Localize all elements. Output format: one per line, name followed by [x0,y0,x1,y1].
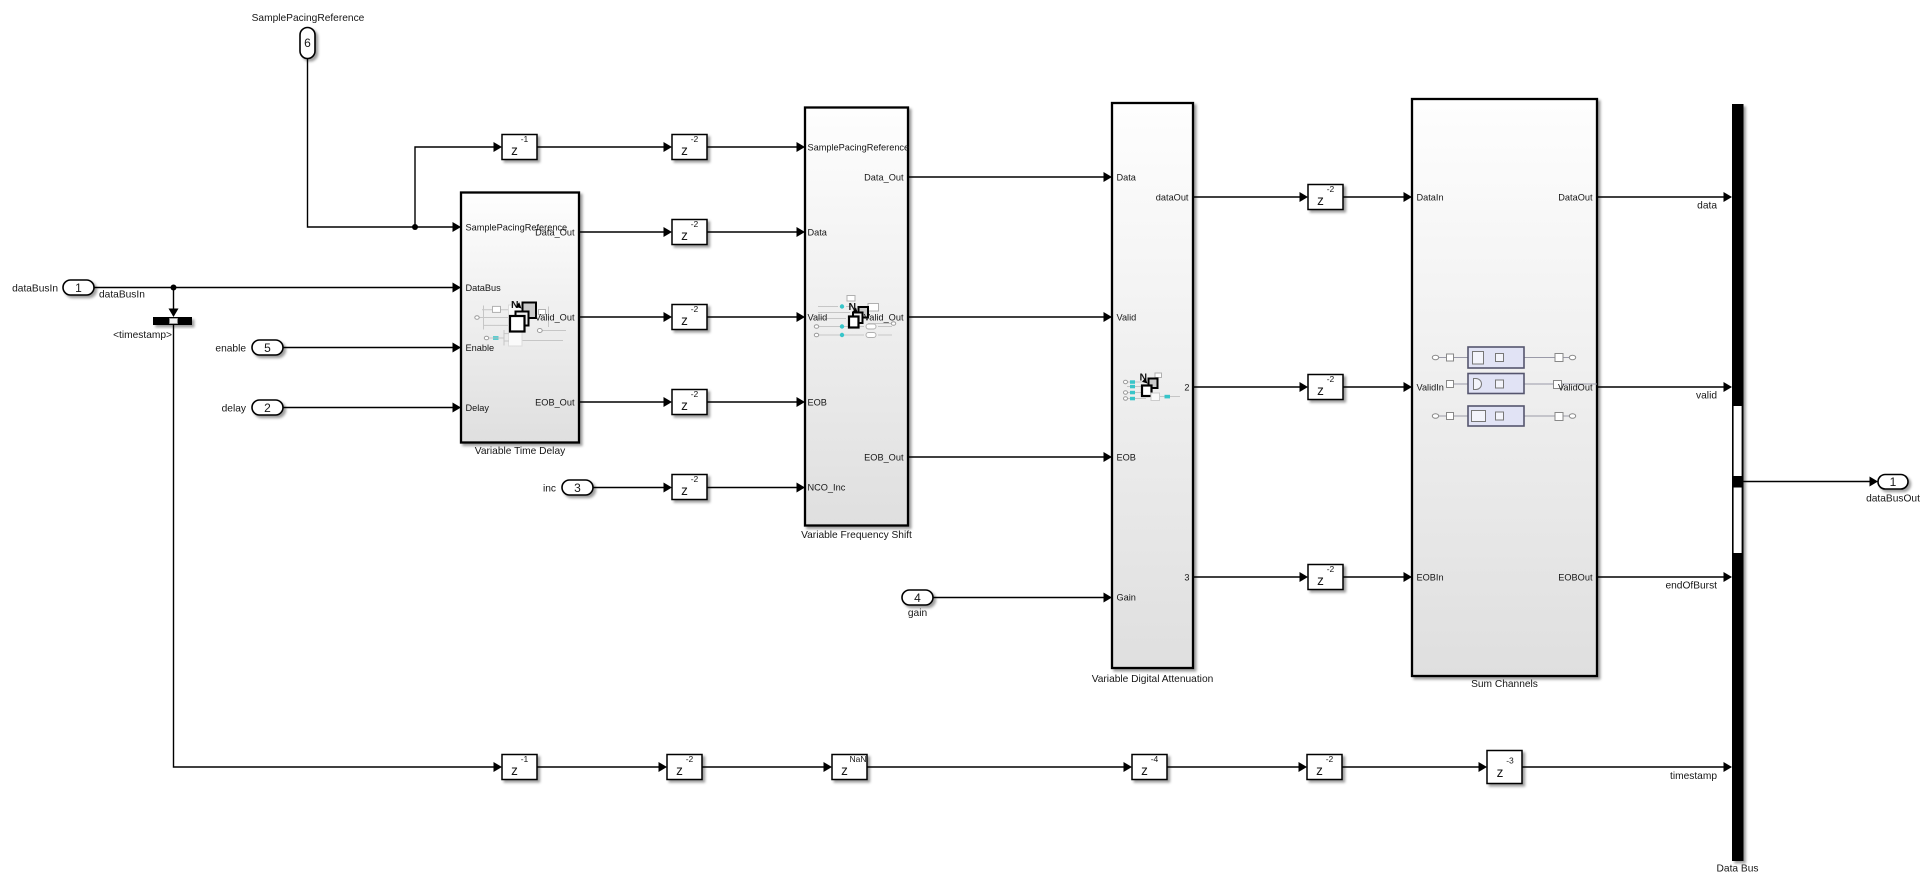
subsystem Variable Digital Attenuation [1112,103,1193,668]
wire VFS Valid_Out to VDA [908,312,1112,322]
wire VTD Data_Out to z-2 [579,227,672,237]
svg-text:SamplePacingReference: SamplePacingReference [808,143,910,153]
svg-text:-2: -2 [1327,374,1335,384]
delay block z-1 bottom [502,754,537,780]
svg-text:EOBOut: EOBOut [1558,573,1593,583]
svg-text:dataBusOut: dataBusOut [1866,494,1920,505]
subsystem Variable Frequency Shift [805,108,909,526]
wire z-4 to z-2 [1167,762,1307,772]
svg-text:DataIn: DataIn [1417,193,1444,203]
svg-text:EOB: EOB [1117,453,1136,463]
wire VTD Valid_Out to z-2 [579,312,672,322]
svg-text:z: z [1141,763,1148,778]
wire junction down to bus selector [169,288,179,318]
delay block z-4 [1132,754,1167,780]
wire Sum EOBOut to Data Bus [1597,572,1732,582]
svg-text:-2: -2 [691,304,699,314]
svg-text:3: 3 [574,481,581,495]
svg-text:SamplePacingReference: SamplePacingReference [252,13,365,24]
svg-text:1: 1 [1890,475,1897,489]
svg-text:Variable Frequency Shift: Variable Frequency Shift [801,530,912,541]
wire z-2 mid3 to Sum Channels [1343,572,1412,582]
bus selector tap [153,317,192,325]
wire bottom z-2 to NaN delay [702,762,832,772]
wire z-2 mid1 to Sum Channels [1343,192,1412,202]
wire VTD EOB_Out to z-2 [579,397,672,407]
delay block z-1 top [502,134,537,160]
svg-text:z: z [511,763,518,778]
wire VFS EOB_Out to VDA [908,452,1112,462]
svg-text:enable: enable [215,344,246,355]
svg-text:Valid_Out: Valid_Out [535,313,575,323]
wire VFS Data_Out to VDA [908,172,1112,182]
svg-text:4: 4 [914,591,921,605]
delay block NaN [832,754,867,780]
inport 5 enable [252,340,283,355]
svg-text:dataBusIn: dataBusIn [99,290,145,301]
svg-text:z: z [1317,383,1324,398]
svg-text:Variable Digital Attenuation: Variable Digital Attenuation [1092,674,1214,685]
svg-text:timestamp: timestamp [1670,771,1717,782]
wire z-2 to z-3 [1342,762,1487,772]
svg-text:data: data [1697,201,1717,212]
wire z-2 mid2 to Sum Channels [1343,382,1412,392]
svg-text:dataOut: dataOut [1156,193,1189,203]
delay block z-2 row2 [672,219,707,245]
wire inc to z-2 [593,483,672,493]
svg-text:Delay: Delay [466,403,490,413]
svg-text:Data_Out: Data_Out [535,228,575,238]
svg-text:-2: -2 [691,219,699,229]
svg-text:DataOut: DataOut [1558,193,1593,203]
wire VDA out2 to z-2 [1193,382,1308,392]
inport 6 SamplePacingReference [300,28,315,59]
svg-text:inc: inc [543,484,556,495]
svg-text:-2: -2 [1327,184,1335,194]
svg-text:-2: -2 [691,474,699,484]
svg-text:2: 2 [264,401,271,415]
svg-text:-3: -3 [1506,756,1514,766]
wire Data Bus to outport [1744,477,1879,487]
svg-text:Data Bus: Data Bus [1717,864,1759,875]
svg-text:EOB_Out: EOB_Out [535,398,575,408]
svg-text:ValidIn: ValidIn [1417,383,1444,393]
wire Sum ValidOut to Data Bus [1597,382,1732,392]
svg-text:Data_Out: Data_Out [864,173,904,183]
bus creator Data Bus [1732,104,1744,861]
delay block z-2 mid2 [1308,374,1343,400]
delay block z-2 row1 [672,134,707,160]
svg-text:z: z [681,143,688,158]
svg-text:NaN: NaN [849,754,866,764]
junction node [171,285,177,291]
delay block z-2 row4 [672,389,707,415]
svg-text:<timestamp>: <timestamp> [113,330,172,341]
wire z-2 row5 to VFS [707,483,805,493]
wire gain to VDA [933,593,1112,603]
svg-text:Data: Data [1117,173,1137,183]
subsystem Variable Time Delay [461,193,579,443]
svg-text:Enable: Enable [466,343,495,353]
inport 3 inc [562,480,593,495]
delay block z-2 bottom [667,754,702,780]
subsystem Sum Channels [1412,99,1597,676]
svg-text:-2: -2 [691,134,699,144]
svg-text:NCO_Inc: NCO_Inc [808,483,846,493]
svg-text:-1: -1 [521,754,529,764]
delay block z-3 [1487,751,1522,784]
svg-text:z: z [511,143,518,158]
svg-text:z: z [1316,763,1323,778]
svg-text:ValidOut: ValidOut [1558,383,1593,393]
svg-text:z: z [1317,573,1324,588]
svg-text:z: z [841,763,848,778]
svg-text:-2: -2 [1326,754,1334,764]
svg-text:Data: Data [808,228,828,238]
svg-text:z: z [681,398,688,413]
svg-text:2: 2 [1184,383,1189,393]
wire z-2 row3 to VFS [707,312,805,322]
svg-text:Variable Time Delay: Variable Time Delay [475,446,566,457]
inport 2 delay [252,400,283,415]
svg-text:z: z [681,228,688,243]
svg-text:z: z [1497,765,1504,780]
wire branch to delay z-1 [415,142,502,227]
svg-text:DataBus: DataBus [466,283,502,293]
wire inport6 to Variable Time Delay [308,59,462,233]
svg-text:delay: delay [222,404,247,415]
svg-text:EOBIn: EOBIn [1417,573,1444,583]
svg-text:valid: valid [1696,391,1717,402]
svg-text:5: 5 [264,341,271,355]
delay block z-2 bottom2 [1307,754,1342,780]
delay block z-2 row3 [672,304,707,330]
svg-text:z: z [676,763,683,778]
svg-text:z: z [681,313,688,328]
wire z-2 row2 to VFS [707,227,805,237]
wire z-2 row1 to VFS [707,142,805,152]
svg-text:Valid_Out: Valid_Out [864,313,904,323]
wire VDA out3 to z-2 [1193,572,1308,582]
wire enable to Variable Time Delay [283,343,461,353]
outport 1 dataBusOut [1878,475,1908,490]
svg-text:Valid: Valid [808,313,828,323]
wire z-2 row4 to VFS [707,397,805,407]
wire dataBusIn to Variable Time Delay [94,283,461,293]
svg-text:-2: -2 [686,754,694,764]
delay block z-2 row5 [672,474,707,500]
svg-text:-2: -2 [1327,564,1335,574]
svg-text:Valid: Valid [1117,313,1137,323]
wire z-1 to z-2 [537,142,672,152]
svg-text:dataBusIn: dataBusIn [12,284,58,295]
wire VDA dataOut to z-2 [1193,192,1308,202]
wire delay to Variable Time Delay [283,403,461,413]
svg-text:EOB: EOB [808,398,827,408]
svg-text:gain: gain [908,608,927,619]
svg-text:1: 1 [75,281,82,295]
svg-text:Sum Channels: Sum Channels [1471,679,1538,690]
svg-text:z: z [1317,193,1324,208]
svg-text:-2: -2 [691,389,699,399]
delay block z-2 mid1 [1308,184,1343,210]
inport 4 gain [902,590,933,605]
wire z-3 to Data Bus timestamp [1522,762,1732,772]
inport 1 dataBusIn [63,280,94,295]
svg-text:3: 3 [1184,573,1189,583]
wire NaN delay to z-4 [867,762,1132,772]
delay block z-2 mid3 [1308,564,1343,590]
svg-text:EOB_Out: EOB_Out [864,453,904,463]
svg-text:6: 6 [304,36,311,50]
svg-text:-1: -1 [521,134,529,144]
wire bottom z-1 to z-2 [537,762,667,772]
wire Sum DataOut to Data Bus [1597,192,1732,202]
svg-text:-4: -4 [1151,754,1159,764]
svg-text:Gain: Gain [1117,593,1136,603]
junction node [412,224,418,230]
svg-text:z: z [681,483,688,498]
svg-text:endOfBurst: endOfBurst [1665,581,1717,592]
wire bus selector to bottom delay chain [174,325,503,772]
